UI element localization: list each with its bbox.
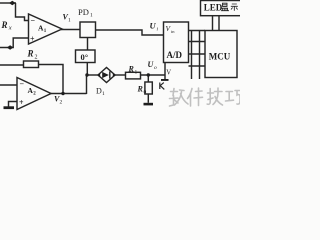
svg-text:0°: 0° <box>81 52 89 62</box>
svg-text:MCU: MCU <box>209 51 231 61</box>
ground hatch K below A/D pin <box>160 83 165 90</box>
watermark ji (skill) <box>207 88 222 105</box>
svg-text:x: x <box>8 25 12 32</box>
svg-text:A/D: A/D <box>167 50 183 60</box>
svg-text:2: 2 <box>35 55 38 61</box>
svg-text:R: R <box>128 65 135 74</box>
bus rung 3 <box>189 53 206 55</box>
probe diamond bottom input <box>7 45 14 50</box>
wire A2 output to rail <box>50 93 87 95</box>
wire rail junction to D1 <box>87 74 99 76</box>
svg-text:1: 1 <box>135 70 138 76</box>
svg-text:R: R <box>1 20 8 30</box>
diode bar inside D1 <box>109 71 111 78</box>
wire A2 noninverting to ground <box>9 102 18 107</box>
wire bottom-left input to A1 non-inverting <box>0 38 29 48</box>
svg-text:o: o <box>154 65 157 71</box>
svg-text:1: 1 <box>90 13 93 19</box>
wire node Uo down to R0 <box>147 75 149 82</box>
D1 left connection dot <box>98 74 101 77</box>
svg-text:0: 0 <box>144 90 147 96</box>
op-amp A1 <box>29 14 63 44</box>
bus rung 1 <box>189 30 206 32</box>
wire R0 to ground <box>147 94 149 103</box>
wire PD1 to A/D (node Ui) <box>96 30 164 35</box>
bus ladder vertical 2 <box>199 31 201 80</box>
wire A/D bottom pin down to ground <box>164 63 166 80</box>
svg-text:V: V <box>166 69 171 76</box>
wire A2 inverting input <box>0 84 17 86</box>
watermark qiao (clever) <box>226 91 241 105</box>
wire top-left input to A1 inverting <box>0 2 16 4</box>
wire PD1 bottom to 0-deg box <box>87 38 89 51</box>
wire LED to MCU right <box>218 16 220 31</box>
probe diamond top input <box>9 1 16 6</box>
LED display box <box>201 1 243 16</box>
ground bar A2 <box>4 106 15 109</box>
wire A1 output to PD1 <box>61 29 80 31</box>
ground bar A/D pin <box>161 79 169 81</box>
detector diamond D1 <box>98 68 115 83</box>
MCU box <box>205 31 237 78</box>
wire R3 to A2 output node <box>39 65 64 94</box>
ground bar R0 <box>144 103 154 106</box>
photodetector PD1 box <box>80 22 96 38</box>
svg-text:R: R <box>27 49 34 59</box>
svg-text:2: 2 <box>60 100 63 106</box>
svg-text:−: − <box>20 80 25 89</box>
wire A2 output rises to rail junction <box>86 75 88 94</box>
glyph xian (display char 1) <box>221 3 229 11</box>
watermark jian (piece) <box>188 88 203 106</box>
svg-text:−: − <box>31 16 36 25</box>
diode triangle inside D1 <box>102 72 109 78</box>
svg-text:1: 1 <box>102 91 105 97</box>
op-amp A2 <box>17 78 51 110</box>
resistor R3 box <box>24 61 39 68</box>
svg-text:LED: LED <box>204 2 223 12</box>
wire feedback into R3 <box>0 64 24 66</box>
D1 right connection dot <box>113 74 116 77</box>
A/D converter box <box>164 22 189 63</box>
resistor R1 box <box>126 72 141 79</box>
wire LED to MCU left <box>212 16 214 31</box>
junction node at rail below 0-deg <box>85 73 88 76</box>
wire R1 to node Uo and A/D ref <box>141 74 166 76</box>
wire D1 to R1 <box>115 74 126 76</box>
bus rung 2 <box>189 41 206 43</box>
bus rung 4 <box>189 65 206 67</box>
junction node A2 output <box>61 92 64 95</box>
wire 0-deg box to rail junction <box>86 63 88 76</box>
svg-text:U: U <box>150 21 157 31</box>
resistor R0 box <box>145 82 152 94</box>
svg-text:+: + <box>19 98 24 107</box>
bus ladder vertical 1 <box>191 31 193 80</box>
glyph shi (display char 2) <box>231 4 238 11</box>
watermark ruan (soft) <box>170 89 189 107</box>
phase shifter 0-deg box <box>76 50 96 63</box>
svg-text:PD: PD <box>78 7 89 17</box>
svg-text:+: + <box>30 35 35 44</box>
svg-text:1: 1 <box>68 18 71 24</box>
junction node Uo <box>147 73 150 76</box>
svg-text:R: R <box>137 85 144 94</box>
